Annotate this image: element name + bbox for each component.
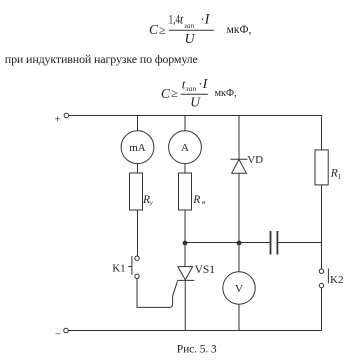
svg-text:Рис. 5. 3: Рис. 5. 3	[177, 343, 217, 355]
svg-text:у: у	[149, 200, 153, 207]
svg-text:C: C	[149, 22, 159, 37]
svg-text:+: +	[55, 114, 61, 126]
svg-text:C: C	[161, 86, 171, 101]
svg-text:мкФ,: мкФ,	[215, 88, 237, 99]
svg-text:≥: ≥	[159, 23, 166, 37]
svg-text:R: R	[142, 194, 150, 206]
svg-text:U: U	[190, 95, 201, 110]
svg-text:≥: ≥	[171, 86, 178, 100]
svg-text:зап: зап	[185, 85, 197, 93]
svg-text:mA: mA	[129, 142, 146, 154]
svg-text:мкФ,: мкФ,	[227, 24, 252, 36]
svg-text:K1: K1	[112, 262, 125, 274]
svg-text:I: I	[202, 77, 209, 92]
svg-text:VD: VD	[247, 154, 263, 166]
svg-text:A: A	[181, 142, 189, 154]
svg-text:I: I	[204, 12, 211, 28]
svg-text:VS1: VS1	[195, 264, 216, 276]
svg-text:V: V	[235, 283, 243, 295]
svg-text:U: U	[185, 32, 196, 47]
svg-text:зап: зап	[183, 22, 195, 30]
svg-text:R: R	[192, 194, 200, 206]
svg-text:−: −	[55, 329, 61, 341]
svg-text:1,4: 1,4	[169, 12, 181, 27]
svg-text:при индуктивной нагрузке по фо: при индуктивной нагрузке по формуле	[5, 52, 198, 66]
svg-text:н: н	[202, 199, 206, 206]
svg-text:K2: K2	[330, 274, 343, 286]
svg-text:1: 1	[338, 173, 342, 181]
